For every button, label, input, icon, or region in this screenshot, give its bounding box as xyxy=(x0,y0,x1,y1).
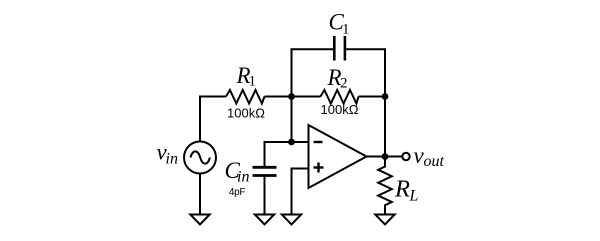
svg-text:100kΩ: 100kΩ xyxy=(321,102,359,117)
svg-text:L: L xyxy=(409,188,419,205)
svg-text:2: 2 xyxy=(340,76,348,92)
wire node A to R2 xyxy=(292,96,321,98)
label Cin xyxy=(225,158,250,186)
resistor R1 xyxy=(226,90,265,104)
terminal vout open circle xyxy=(402,153,409,160)
minus input junction dot xyxy=(288,139,295,146)
wire node A up to C1 rail xyxy=(292,49,334,142)
ground under Cin xyxy=(255,215,274,225)
sine wave inside source xyxy=(191,151,210,163)
wire input top from source to R1 xyxy=(200,97,226,142)
wire R2 to node B xyxy=(359,96,386,98)
svg-text:1: 1 xyxy=(342,22,350,38)
label vin xyxy=(157,140,178,168)
node B junction dot xyxy=(382,93,389,100)
wire R1 to node A xyxy=(265,96,292,98)
ground under RL xyxy=(375,215,394,225)
label RL xyxy=(394,176,419,205)
wire minus input xyxy=(265,142,309,166)
resistor R2 xyxy=(321,90,359,104)
wire plus input to ground xyxy=(292,169,309,216)
svg-text:R: R xyxy=(394,176,410,203)
label C1 xyxy=(329,10,350,38)
label R1 xyxy=(236,63,257,90)
label R2 xyxy=(327,65,348,92)
voltage source Vin circle xyxy=(184,142,216,174)
capacitor Cin xyxy=(253,167,277,175)
svg-text:100kΩ: 100kΩ xyxy=(227,106,265,121)
svg-text:in: in xyxy=(166,151,178,168)
resistor RL xyxy=(378,157,392,216)
capacitor C1 xyxy=(334,36,345,61)
ground under source xyxy=(190,215,209,225)
svg-text:1: 1 xyxy=(249,74,257,90)
op-amp U1 xyxy=(309,125,367,188)
wire C1 right plate to right rail xyxy=(346,49,385,156)
op-amp plus sign xyxy=(314,163,324,173)
output node junction dot xyxy=(382,153,389,160)
wire op-amp output to vout terminal xyxy=(367,156,403,158)
svg-text:in: in xyxy=(237,169,249,186)
label vout xyxy=(414,143,445,170)
node A junction dot xyxy=(288,93,295,100)
op-amp minus sign xyxy=(314,141,323,143)
svg-text:4pF: 4pF xyxy=(229,187,246,198)
svg-text:out: out xyxy=(424,153,445,170)
wire source to ground xyxy=(199,174,201,216)
ground under plus input xyxy=(282,215,301,225)
wire Cin to ground xyxy=(264,176,266,216)
